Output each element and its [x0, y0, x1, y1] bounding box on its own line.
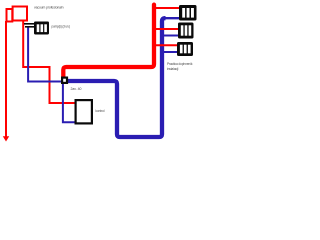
connector K2 — [178, 23, 194, 39]
component B1 small red box (behind) — [7, 9, 13, 22]
wire thick red: bus from top right down to node — [63, 5, 154, 77]
wire red branch to connector K1 — [154, 7, 180, 9]
svg-text:instalacji: instalacji — [167, 67, 179, 71]
load box — [76, 100, 92, 123]
wire blue: plug P1 to node — [28, 27, 62, 81]
svg-text:kontrol: kontrol — [96, 109, 105, 113]
wire red: B2 to load box — [23, 21, 75, 104]
wire thick blue: node right, down, right, up to connectors — [68, 18, 166, 137]
wire blue branch to connector K3 — [162, 51, 178, 53]
wire blue branch to connector K1 — [163, 17, 180, 19]
wire blue: node down to load box — [63, 84, 75, 123]
svg-text:2av. 40: 2av. 40 — [71, 87, 82, 91]
component B2 big red box — [13, 7, 27, 21]
wire blue branch to connector K2 — [162, 35, 179, 37]
connector K3 — [177, 42, 193, 56]
wire red: B1 down to arrow — [5, 21, 7, 137]
svg-text:pump(s) (3 un.): pump(s) (3 un.) — [52, 25, 71, 29]
svg-text:Practica dophnenik: Practica dophnenik — [167, 62, 193, 66]
wire red branch to connector K2 — [154, 28, 179, 30]
node junction — [62, 78, 67, 83]
connector K1 — [179, 5, 197, 21]
wire red branch to connector K3 — [154, 44, 178, 46]
plug P1 (3-slot connector with pins) — [24, 22, 49, 35]
arrowhead down — [3, 136, 9, 141]
svg-text:vacuum profesionaln: vacuum profesionaln — [34, 5, 64, 9]
